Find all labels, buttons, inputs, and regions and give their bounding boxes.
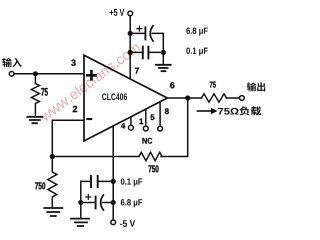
load arrow 75Ω负载 <box>198 110 212 112</box>
wire node A to feedback resistor <box>52 156 139 158</box>
-5V terminal <box>111 220 116 225</box>
node -5V C3 junction <box>111 179 116 184</box>
resistor Ro 75 output <box>202 94 227 102</box>
capacitor C2 0.1uF <box>130 51 163 53</box>
capacitor C3 0.1uF <box>81 180 113 182</box>
ground Rg <box>44 208 62 216</box>
pin 4 label <box>121 123 125 129</box>
node +5V C1 junction <box>128 31 133 36</box>
node A inverting node <box>50 154 55 159</box>
output terminal 输出 <box>240 96 245 101</box>
pin 1 NC <box>130 117 132 125</box>
ground input termination <box>27 117 42 123</box>
capacitor C1 6.8uF <box>130 33 163 50</box>
wire pin 4 to -5V <box>112 126 114 220</box>
node bypass caps to ground <box>161 50 166 55</box>
pin 2 label <box>73 106 77 112</box>
node -5V C4 junction <box>111 200 116 205</box>
pin 6 label <box>170 82 174 88</box>
wire Ro to output terminal <box>227 97 240 99</box>
wire Rf to output node <box>161 98 188 157</box>
ground supply bypass top <box>156 65 171 71</box>
wire op-amp output <box>167 97 201 99</box>
resistor Rg 750 to ground <box>48 157 57 208</box>
wire pin 2 to node A <box>52 120 83 156</box>
wire input to pin 3 <box>14 73 83 75</box>
pin 5 NC <box>145 109 147 126</box>
label NC <box>142 138 152 144</box>
node +5V C2 junction <box>128 50 133 55</box>
+5V terminal <box>128 11 133 16</box>
ground supply bypass bottom <box>71 219 89 226</box>
wire +5V to pin 7 <box>129 16 131 79</box>
input terminal 输入 <box>9 71 14 76</box>
node output junction <box>185 95 190 100</box>
resistor 75 input termination <box>31 76 39 116</box>
resistor Rf 750 feedback <box>139 152 162 160</box>
capacitor C4 6.8uF <box>81 202 113 204</box>
pin 7 label <box>135 68 139 74</box>
wire bypass left leg <box>80 181 82 218</box>
pin 3 label <box>71 60 75 66</box>
pin 8 NC <box>159 102 161 126</box>
node C4 left junction <box>78 200 83 205</box>
node input junction <box>33 71 38 76</box>
op-amp U1 CLC406 <box>84 55 167 141</box>
